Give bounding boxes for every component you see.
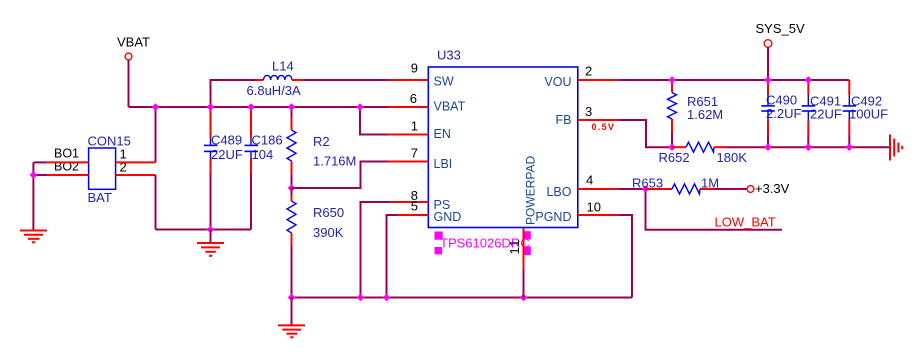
svg-text:SYS_5V: SYS_5V [756,21,805,36]
wire FB net [618,120,672,147]
pin 10 stub [578,214,619,216]
svg-text:5: 5 [411,199,418,214]
power symbol +3.3V [747,181,790,196]
wire CON15 pin1 stub [116,161,156,163]
svg-text:0.5V: 0.5V [592,122,616,132]
junction VBAT-pin1 [152,103,160,111]
svg-text:U33: U33 [437,48,461,63]
svg-text:2.2UF: 2.2UF [766,106,801,121]
wire BO2 [33,174,47,176]
svg-text:GND: GND [434,210,462,224]
pin 7 stub [388,161,428,163]
svg-text:EN: EN [434,127,451,141]
wire GND net [387,215,398,298]
junction C491 top [805,76,813,84]
svg-text:3: 3 [585,104,592,119]
junction C490 bottom [764,143,772,151]
resistor R650 [287,188,344,298]
wire LOW_BAT drop [646,189,783,230]
svg-text:180K: 180K [717,150,748,165]
pin 9 stub [388,79,428,81]
junction bottom GND [383,294,391,302]
ground G4 (right, rotated) [890,135,902,161]
pin 5 stub [397,214,428,216]
svg-text:LBO: LBO [546,185,571,199]
svg-text:PGND: PGND [535,210,571,224]
wire L14 to SW [304,79,388,81]
junction C492 bottom [846,143,854,151]
svg-text:LBI: LBI [434,157,453,171]
resistor R653 [632,175,747,194]
svg-text:FB: FB [556,113,572,127]
svg-text:POWERPAD: POWERPAD [524,156,538,225]
wire bottom bus [292,297,633,299]
wire C489 to gnd bus [210,174,212,230]
wire LBI net [292,162,389,189]
pad square left-bottom [435,247,443,254]
wire bottom-right bus [726,146,889,148]
junction LBO-R653 [642,185,650,193]
junction C490 top [764,76,772,84]
power symbol SYS_5V [756,21,805,47]
ground G2 [197,230,224,256]
wire CON15 pin2 stub [116,174,156,176]
junction EN [356,103,364,111]
inductor L14 [211,59,305,108]
wire C492 corner [848,80,850,95]
junction R651 top [668,76,676,84]
svg-text:104: 104 [252,147,274,162]
svg-text:L14: L14 [272,59,294,74]
svg-text:2: 2 [585,64,592,79]
wire EN net [360,107,388,135]
resistor R652 [659,142,748,165]
junction bottom PS [357,294,365,302]
svg-text:BAT: BAT [88,190,112,205]
pad square right-top [523,231,531,239]
svg-text:6: 6 [410,91,417,106]
junction bottom pad [520,294,528,302]
wire BO1 [33,161,47,163]
svg-text:LOW_BAT: LOW_BAT [715,215,776,230]
svg-text:390K: 390K [313,225,344,240]
svg-text:22UF: 22UF [211,147,243,162]
pad square right-bottom [523,246,531,255]
wire VBAT bus [129,106,389,108]
ground G3 [278,298,305,338]
pin 2 stub [578,79,619,81]
ground G1 [20,231,47,243]
svg-text:4: 4 [586,173,593,188]
wire ground bus left [156,229,252,231]
junction gnd bus [207,226,215,234]
pin 1 stub [388,134,428,136]
svg-text:SW: SW [434,75,454,89]
junction bottom R650 [288,294,296,302]
junction C491 bottom [805,143,813,151]
svg-text:R652: R652 [659,150,690,165]
capacitor C492 [843,80,888,147]
junction C489 top [207,103,215,111]
junction C186 top [247,103,255,111]
svg-text:22UF: 22UF [810,107,842,122]
svg-text:1.716M: 1.716M [313,154,356,169]
pin 4 stub [578,188,619,190]
wire CON15 pin1 to VBAT bus [155,106,157,162]
pin 8 stub [390,201,428,203]
svg-text:VOU: VOU [544,75,571,89]
IC U33 [428,48,578,228]
junction R2 top [288,103,296,111]
connector CON15 [88,134,131,205]
svg-text:7: 7 [411,146,418,161]
wire VBAT drop [128,60,130,107]
wire PGND net [618,215,632,298]
svg-text:VBAT: VBAT [117,35,150,50]
svg-text:1.62M: 1.62M [687,107,723,122]
svg-text:11: 11 [507,238,522,255]
wire PS net [361,202,391,298]
svg-text:R650: R650 [313,205,344,220]
capacitor C491 [802,80,842,147]
power symbol VBAT [117,35,150,60]
pin 6 stub [388,106,428,108]
junction VBAT-L14 [207,103,215,111]
wire BO1 to ground [32,162,34,230]
svg-text:6.8uH/3A: 6.8uH/3A [247,83,302,98]
svg-text:+3.3V: +3.3V [755,181,790,196]
wire powerpad down [523,228,525,270]
svg-text:VBAT: VBAT [434,100,466,114]
wire SYS_5V drop [767,47,769,80]
junction R2-R650-LBI [288,184,296,192]
junction BO2-gnd [30,171,38,179]
resistor R2 [287,107,356,188]
capacitor C490 [761,80,801,147]
svg-text:R2: R2 [313,134,330,149]
capacitor C489 [204,107,243,174]
resistor R651 [668,80,724,147]
wire C186 down [250,174,252,230]
wire CON15 pin2 down [155,175,157,230]
svg-text:BO1: BO1 [54,147,79,161]
svg-text:9: 9 [411,61,418,76]
pin 3 stub [578,119,619,121]
wire LBO to R653 [618,188,645,190]
junction R651 bottom [668,143,676,151]
wire VOU bus [618,79,849,81]
svg-text:10: 10 [587,200,601,215]
svg-text:1: 1 [411,119,418,134]
pad square left-top [435,232,443,240]
svg-text:100UF: 100UF [849,107,888,122]
capacitor C186 [245,107,283,174]
